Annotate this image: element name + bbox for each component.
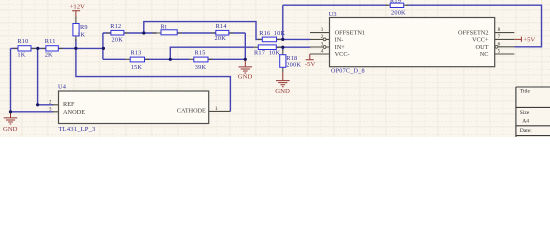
svg-text:Rt: Rt xyxy=(160,24,166,31)
svg-text:OP07C_D_8: OP07C_D_8 xyxy=(331,68,365,75)
svg-text:1: 1 xyxy=(215,106,218,112)
svg-text:R10: R10 xyxy=(17,38,28,45)
svg-text:TL431_LP_3: TL431_LP_3 xyxy=(59,126,96,133)
svg-text:-5V: -5V xyxy=(305,61,316,68)
svg-text:+12V: +12V xyxy=(70,4,85,11)
svg-text:NC: NC xyxy=(480,51,489,58)
svg-text:4: 4 xyxy=(321,49,324,55)
svg-text:R19: R19 xyxy=(390,0,401,5)
svg-text:R9: R9 xyxy=(80,24,88,31)
svg-text:1K: 1K xyxy=(77,32,85,39)
svg-text:1K: 1K xyxy=(17,51,25,58)
svg-text:OUT: OUT xyxy=(476,44,489,51)
svg-text:CATHODE: CATHODE xyxy=(177,107,206,114)
svg-text:Date:: Date: xyxy=(520,128,532,134)
svg-text:200K: 200K xyxy=(391,10,406,17)
svg-text:VCC-: VCC- xyxy=(335,51,350,58)
svg-text:39K: 39K xyxy=(195,64,207,71)
svg-text:IN-: IN- xyxy=(335,37,344,44)
svg-text:U3: U3 xyxy=(329,11,337,18)
svg-text:R14: R14 xyxy=(216,23,228,30)
svg-text:2: 2 xyxy=(321,34,324,40)
svg-text:15K: 15K xyxy=(131,64,143,71)
svg-text:3: 3 xyxy=(49,106,52,112)
svg-text:20K: 20K xyxy=(215,35,227,42)
svg-text:U4: U4 xyxy=(58,84,67,91)
svg-text:3: 3 xyxy=(321,42,324,48)
svg-text:R17: R17 xyxy=(254,49,265,56)
svg-text:Size: Size xyxy=(520,110,530,116)
svg-text:200K: 200K xyxy=(286,61,301,68)
svg-text:6: 6 xyxy=(498,41,501,47)
svg-text:1: 1 xyxy=(321,27,324,33)
svg-text:IN+: IN+ xyxy=(335,44,346,51)
svg-text:R11: R11 xyxy=(45,38,56,45)
svg-text:10K: 10K xyxy=(274,30,286,37)
svg-text:10K: 10K xyxy=(269,49,281,56)
svg-text:Title: Title xyxy=(520,88,531,94)
svg-text:GND: GND xyxy=(238,74,253,81)
svg-text:REF: REF xyxy=(63,101,75,108)
svg-text:ANODE: ANODE xyxy=(63,109,85,116)
svg-text:2: 2 xyxy=(49,99,52,105)
svg-text:+5V: +5V xyxy=(523,37,535,44)
svg-text:R15: R15 xyxy=(195,50,206,57)
svg-text:2K: 2K xyxy=(45,51,53,58)
svg-text:7: 7 xyxy=(498,34,501,40)
svg-text:A4: A4 xyxy=(522,118,529,124)
svg-text:8: 8 xyxy=(498,27,501,33)
svg-text:GND: GND xyxy=(3,126,18,133)
svg-text:5: 5 xyxy=(498,49,501,55)
svg-text:R13: R13 xyxy=(131,49,142,56)
svg-text:R12: R12 xyxy=(110,23,121,30)
svg-text:GND: GND xyxy=(275,88,290,95)
svg-text:20K: 20K xyxy=(112,37,124,44)
svg-text:R16: R16 xyxy=(259,30,270,37)
svg-text:VCC+: VCC+ xyxy=(472,37,489,44)
